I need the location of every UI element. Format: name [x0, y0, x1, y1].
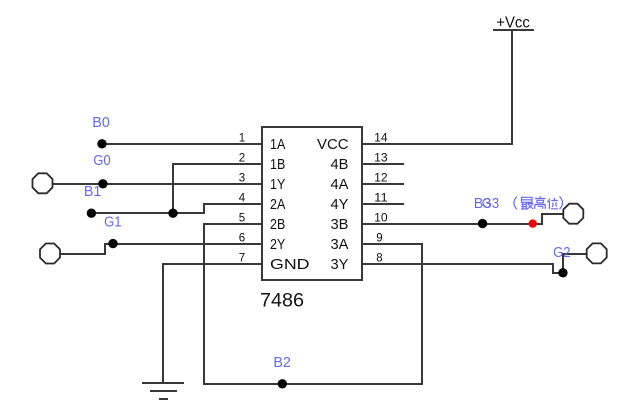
svg-text:B0: B0 [92, 114, 110, 131]
svg-text:7: 7 [239, 253, 245, 265]
svg-text:3: 3 [239, 173, 245, 185]
svg-text:3B: 3B [331, 216, 349, 233]
svg-text:2A: 2A [270, 196, 285, 213]
svg-text:3A: 3A [331, 236, 349, 253]
label U1 value 7486 [260, 291, 304, 312]
label U1 pin 1 name 1A [270, 136, 285, 153]
pin number 14 [374, 133, 388, 145]
label U1 pin 13 name 4B [331, 156, 349, 173]
port circle G1 input [40, 244, 60, 264]
svg-text:2Y: 2Y [270, 236, 285, 253]
svg-text:4: 4 [239, 193, 246, 205]
svg-text:10: 10 [374, 213, 388, 225]
svg-text:G3: G3 [482, 195, 500, 212]
svg-text:2B: 2B [270, 216, 285, 233]
label U1 pin 10 name 3B [331, 216, 349, 233]
label U1 pin 11 name 4Y [331, 196, 349, 213]
net label B1 [84, 183, 102, 200]
net label G0 [93, 152, 111, 169]
svg-text:B2: B2 [273, 354, 291, 371]
junction dot on pin 6 wire [108, 239, 117, 248]
wire net G1 to pin 4 [91, 204, 262, 213]
label U1 pin 6 name 2Y [270, 236, 285, 253]
svg-text:6: 6 [239, 233, 245, 245]
wire net B0 to pin 1 [102, 143, 262, 145]
junction dot on pin 8 wire (G2) [558, 268, 567, 277]
pin number 9 [376, 233, 382, 245]
port circle G0 input [33, 173, 53, 193]
svg-text:3Y: 3Y [331, 256, 349, 273]
net label (最高位) CJK drawn as strokes [514, 196, 563, 209]
svg-text:1: 1 [239, 133, 245, 145]
net label G3 [482, 195, 500, 212]
junction dot B1 tap [98, 179, 107, 188]
label U1 pin 12 name 4A [331, 176, 349, 193]
svg-text:G2: G2 [553, 244, 571, 261]
pin number 4 [239, 193, 246, 205]
pin number 2 [239, 153, 245, 165]
wire pin 7 to ground [163, 264, 262, 383]
pin number 3 [239, 173, 245, 185]
svg-text:G1: G1 [104, 214, 122, 231]
pin number 7 [239, 253, 245, 265]
label U1 pin 8 name 3Y [331, 256, 349, 273]
junction dot B2 [278, 379, 287, 388]
junction dot B0 [97, 139, 106, 148]
svg-text:1A: 1A [270, 136, 285, 153]
junction dot G1 end [87, 209, 96, 218]
wire net G0 vertical to pin 2 [173, 164, 262, 213]
wire pin 8 to port G2 [362, 254, 587, 273]
pin number 11 [374, 193, 388, 205]
pin number 10 [374, 213, 388, 225]
red junction dot B3 net [529, 219, 537, 227]
net label B2 [273, 354, 291, 371]
svg-text:GND: GND [270, 256, 310, 273]
pin number 8 [376, 253, 382, 265]
port circle G2 output [587, 243, 607, 263]
label U1 pin 14 name VCC [317, 136, 349, 153]
svg-text:4Y: 4Y [331, 196, 349, 213]
wire pin 11 stub [362, 203, 404, 205]
pin number 13 [374, 153, 388, 165]
pin number 6 [239, 233, 245, 245]
junction node G0/pin2 riser [168, 209, 177, 218]
svg-text:13: 13 [374, 153, 388, 165]
net label B3 [474, 195, 492, 212]
label U1 pin 3 name 1Y [270, 176, 285, 193]
label U1 pin 9 name 3A [331, 236, 349, 253]
pin number 1 [239, 133, 245, 145]
svg-text:5: 5 [239, 213, 245, 225]
pin number 5 [239, 213, 245, 225]
wire pin 14 to +Vcc [362, 30, 534, 144]
svg-text:12: 12 [374, 173, 388, 185]
ground [142, 383, 184, 399]
wire pin 10 to port B3 [362, 214, 564, 224]
wire pin 12 stub [362, 183, 404, 185]
svg-text:4A: 4A [331, 176, 349, 193]
junction dot on pin 10 wire (B3) [478, 219, 487, 228]
svg-text:G0: G0 [93, 152, 111, 169]
wire port G0 to pin 3 [52, 183, 262, 185]
wire pin 5 to B2 bus to pin 9 [204, 224, 422, 384]
label U1 pin 4 name 2A [270, 196, 285, 213]
wire pin 13 stub [362, 163, 404, 165]
net label G1 [104, 214, 122, 231]
IC U1 7486 body [262, 127, 362, 280]
svg-text:14: 14 [374, 133, 388, 145]
svg-text:7486: 7486 [260, 291, 304, 312]
svg-text:9: 9 [376, 233, 382, 245]
port circle B3 output [563, 204, 583, 224]
label U1 pin 7 name GND [270, 256, 310, 273]
net label G2 [553, 244, 571, 261]
svg-text:+Vcc: +Vcc [496, 15, 530, 32]
label U1 pin 5 name 2B [270, 216, 285, 233]
wire port G1 to pin 6 [59, 244, 262, 254]
svg-text:4B: 4B [331, 156, 349, 173]
svg-text:11: 11 [374, 193, 388, 205]
svg-text:2: 2 [239, 153, 245, 165]
svg-text:1Y: 1Y [270, 176, 285, 193]
svg-text:8: 8 [376, 253, 382, 265]
label U1 pin 2 name 1B [270, 156, 285, 173]
power label +Vcc [496, 15, 530, 32]
svg-text:B1: B1 [84, 183, 102, 200]
svg-text:1B: 1B [270, 156, 285, 173]
svg-text:VCC: VCC [317, 136, 349, 153]
net label B0 [92, 114, 110, 131]
pin number 12 [374, 173, 388, 185]
